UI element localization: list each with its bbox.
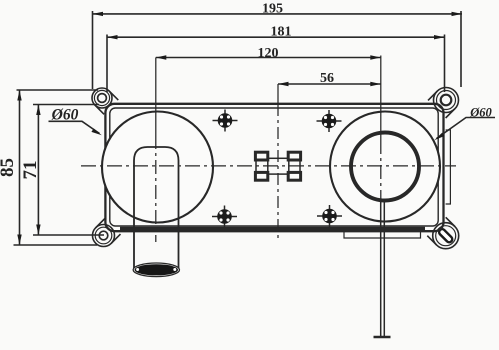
horizontal centerline: [81, 165, 456, 167]
svg-text:56: 56: [320, 71, 334, 86]
mounting ear bottom-left with screw hole: [93, 219, 121, 247]
rough-in box inner wall: [110, 108, 438, 226]
svg-text:195: 195: [262, 2, 283, 17]
outlet tube mouth (dark ellipse): [133, 263, 179, 277]
outlet tube / cartridge dome: [134, 147, 179, 268]
svg-text:85: 85: [0, 158, 18, 177]
svg-text:Ø60: Ø60: [51, 107, 79, 124]
dimension 195 (overall width): [93, 11, 463, 89]
screw head top-right: [317, 110, 342, 132]
vertical centerline right hole: [380, 56, 382, 141]
vertical centerline fitting: [277, 84, 279, 104]
rough-in box outer wall: [105, 104, 443, 231]
svg-text:120: 120: [258, 46, 279, 61]
screw head bottom-right: [317, 205, 342, 227]
valve stem rod with end cap: [381, 201, 385, 337]
svg-text:71: 71: [20, 161, 41, 180]
vertical centerline left hole: [155, 58, 157, 136]
mounting ear top-right with screw hole: [428, 88, 459, 119]
dimension 71 (vertical hole spacing): [33, 105, 104, 236]
screw head top-left: [213, 110, 238, 132]
screw head bottom-left: [212, 206, 237, 228]
dimension 85 (overall height): [14, 90, 99, 245]
svg-text:181: 181: [271, 25, 292, 40]
leader Ø60 right: [434, 118, 495, 141]
dimension 56 (fitting to right hole): [278, 82, 381, 86]
center pipe coupling fitting: [255, 152, 300, 180]
left valve opening (circle Ø60): [102, 112, 213, 223]
dimension 181 (ear hole spacing): [107, 35, 445, 93]
mounting ear top-left with screw hole: [92, 88, 118, 114]
bottom lip tab: [344, 231, 421, 238]
dimension 120 (hole center spacing): [156, 55, 381, 59]
right valve opening (circle Ø60): [330, 112, 440, 222]
svg-text:Ø60: Ø60: [469, 106, 492, 120]
leader Ø60 left: [49, 121, 102, 135]
right side clip tab: [446, 130, 451, 204]
box bottom edge (thick line): [120, 227, 425, 231]
right valve cartridge ring: [351, 133, 419, 201]
mounting ear bottom-right with slotted hole: [427, 217, 458, 248]
